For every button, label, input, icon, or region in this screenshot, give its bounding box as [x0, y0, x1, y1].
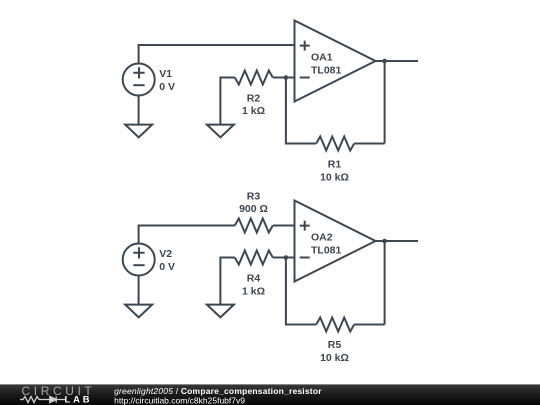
- label R2: [242, 92, 265, 117]
- svg-text:1 kΩ: 1 kΩ: [242, 285, 265, 297]
- svg-text:R1: R1: [328, 159, 342, 171]
- voltage source V2: [123, 244, 155, 276]
- wire: feedback right vertical (R5): [384, 241, 386, 325]
- op-amp OA2: [295, 201, 376, 282]
- resistor R3: [235, 219, 273, 233]
- wire: R5 to output vertical: [354, 324, 384, 326]
- svg-text:R3: R3: [247, 190, 261, 202]
- resistor R2: [235, 71, 273, 85]
- svg-text:0 V: 0 V: [159, 81, 175, 93]
- resistor R4: [235, 251, 273, 265]
- wire: V1 to ground: [138, 96, 140, 125]
- svg-text:http://circuitlab.com/c8kh25fu: http://circuitlab.com/c8kh25fubf7v9: [114, 395, 245, 405]
- wire: R4 left lead down to ground: [220, 258, 234, 305]
- wire: R3 to OA2 non-inverting input: [273, 225, 295, 227]
- svg-text:V2: V2: [159, 248, 172, 260]
- svg-text:1 kΩ: 1 kΩ: [242, 105, 265, 117]
- label V2: [159, 248, 175, 273]
- ground (below R4): [207, 305, 234, 318]
- wire: feedback left vertical (R5): [286, 258, 316, 325]
- svg-text:OA1: OA1: [311, 52, 333, 64]
- wire: feedback left vertical: [286, 78, 316, 144]
- resistor R5: [316, 318, 354, 332]
- op-amp OA1: [295, 21, 376, 102]
- svg-text:10 kΩ: 10 kΩ: [320, 352, 349, 364]
- wire: V1 to OA1 non-inverting input: [138, 44, 295, 46]
- svg-text:10 kΩ: 10 kΩ: [320, 171, 349, 183]
- wire: OA1 output: [376, 60, 419, 62]
- wire: OA2 output: [376, 240, 419, 242]
- wire: V2 to R3: [138, 225, 235, 227]
- label V1: [159, 68, 175, 93]
- label R1: [320, 159, 349, 184]
- node: OA1 inverting input junction: [284, 75, 289, 80]
- wire: R1 to output vertical: [354, 143, 384, 145]
- logo resistor-diode glyph: [20, 396, 65, 402]
- svg-text:R4: R4: [247, 273, 261, 285]
- svg-text:OA2: OA2: [311, 232, 333, 244]
- ground (below V2): [125, 305, 152, 318]
- svg-text:TL081: TL081: [311, 64, 342, 76]
- wire: R4 to OA2 inverting input: [273, 257, 295, 259]
- label OA1: [311, 52, 342, 77]
- label R3: [239, 190, 268, 215]
- wire: V2 to ground: [138, 276, 140, 305]
- label OA2: [311, 232, 342, 257]
- wire: feedback right vertical: [384, 61, 386, 144]
- svg-text:0 V: 0 V: [159, 261, 175, 273]
- svg-text:R5: R5: [328, 339, 342, 351]
- label R4: [242, 273, 265, 298]
- resistor R1: [316, 137, 354, 151]
- wire: R2 left lead down to ground: [220, 78, 234, 125]
- wire: R2 to OA1 inverting input: [273, 77, 295, 79]
- wire: V2 top stub: [138, 226, 140, 244]
- node: OA1 output junction: [382, 59, 387, 64]
- node: OA2 inverting input junction: [284, 255, 289, 260]
- node: OA2 output junction: [382, 239, 387, 244]
- ground (below V1): [125, 125, 152, 138]
- voltage source V1: [123, 64, 155, 96]
- svg-text:TL081: TL081: [311, 244, 342, 256]
- svg-text:900 Ω: 900 Ω: [239, 203, 268, 215]
- svg-text:R2: R2: [247, 92, 261, 104]
- wire: V1 top stub: [138, 45, 140, 63]
- label R5: [320, 339, 349, 364]
- svg-text:V1: V1: [159, 68, 172, 80]
- svg-text:LAB: LAB: [65, 394, 93, 405]
- ground (below R2): [207, 125, 234, 138]
